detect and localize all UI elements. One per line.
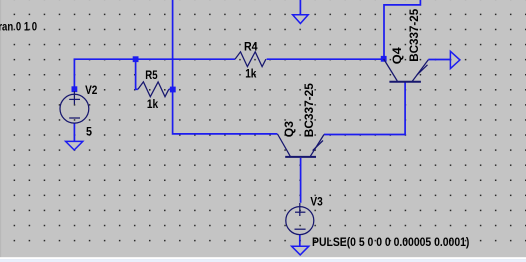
voltage source V3 body — [286, 207, 314, 235]
junction at R5 top — [133, 56, 139, 62]
wire Q4 emitter to port — [428, 59, 450, 61]
wire R5 left drop — [136, 59, 138, 89]
wire Q4 base to Q3 emitter — [324, 82, 405, 135]
resistor R5 zigzag — [138, 82, 169, 97]
junction at V2 top pin — [72, 86, 78, 92]
svg-text:R5: R5 — [145, 70, 158, 82]
wire V2 top to R4 left — [74, 59, 235, 91]
wire Q3 base down — [300, 158, 302, 203]
transistor Q4 — [389, 81, 421, 83]
svg-text:1k: 1k — [147, 99, 159, 111]
wire R4 right to Q4 collector junction — [267, 58, 384, 60]
voltage source V2 body — [60, 94, 89, 123]
junction at Q4 collector — [381, 56, 387, 62]
svg-text:Q4: Q4 — [390, 47, 404, 64]
wire R5 right stub — [169, 88, 173, 90]
resistor R4 zigzag — [235, 52, 266, 67]
svg-text:PULSE(0 5 0 0 0 0.00005 0.0001: PULSE(0 5 0 0 0 0.00005 0.0001) — [312, 237, 470, 249]
svg-text:BC337-25: BC337-25 — [302, 83, 316, 137]
status bar bottom — [0, 257, 526, 259]
left window edge — [0, 0, 1, 257]
svg-text:5: 5 — [86, 126, 93, 138]
svg-text:BC337-25: BC337-25 — [407, 8, 421, 61]
svg-text:Q3: Q3 — [282, 121, 296, 138]
wire top hook to Q4 collector — [384, 0, 420, 59]
svg-text:1k: 1k — [245, 69, 257, 81]
ground under V3 — [292, 246, 309, 255]
wire V2 to ground — [73, 123, 75, 141]
wire V3 to ground — [299, 234, 301, 246]
svg-text:.tran 0 1 0: .tran 0 1 0 — [0, 21, 37, 33]
ground under V2 — [66, 141, 83, 150]
svg-text:V2: V2 — [85, 85, 97, 97]
svg-text:R4: R4 — [244, 42, 258, 54]
transistor Q3 — [285, 156, 316, 158]
junction at R5 right on bus — [170, 87, 176, 93]
wire vertical bus to Q3 collector — [173, 0, 278, 134]
wire top ground stem — [299, 0, 301, 15]
output port arrow — [450, 51, 460, 68]
svg-text:V3: V3 — [310, 197, 322, 209]
ground top — [293, 15, 309, 24]
